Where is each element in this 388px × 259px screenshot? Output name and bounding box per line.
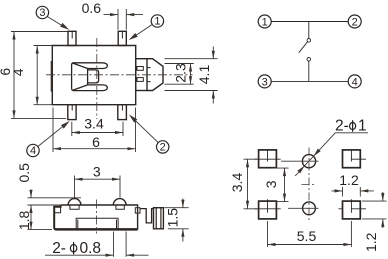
side view dome left <box>68 199 81 205</box>
centerline vertical (front view) <box>96 38 98 119</box>
dimension 4.1 (lever overall) <box>165 47 218 104</box>
lever plug ticks <box>147 68 151 82</box>
svg-text:1: 1 <box>262 17 268 29</box>
side view lever foot <box>154 208 164 229</box>
svg-text:3: 3 <box>263 180 279 188</box>
PCB hole top <box>302 155 315 168</box>
switch contact top <box>307 39 311 43</box>
svg-text:1: 1 <box>154 16 160 28</box>
svg-text:1.5: 1.5 <box>165 208 181 228</box>
lever base (front view) <box>136 59 147 91</box>
svg-text:2.3: 2.3 <box>173 63 189 83</box>
PCB pad bottom-left <box>254 199 280 219</box>
dimension 2-phi0.8 (side view) <box>45 232 149 257</box>
dimension 0.5 (side view) <box>28 190 82 206</box>
dimension 6 (front view bottom) <box>53 108 136 153</box>
dimension 2.3 (lever) <box>165 64 194 85</box>
svg-text:3: 3 <box>39 7 45 19</box>
PCB center cross <box>302 184 317 186</box>
side view dome right <box>113 199 126 205</box>
circuit diagram: terminal 3 <box>258 75 271 88</box>
svg-text:0.5: 0.5 <box>16 163 32 183</box>
leader to pad 4 <box>38 125 65 147</box>
svg-text:3.4: 3.4 <box>229 173 245 193</box>
side view lever arm <box>140 209 154 223</box>
dimension 5.5 (PCB) <box>268 221 352 247</box>
side view centerline <box>95 200 97 234</box>
dimension 1.8 (side view) <box>28 205 53 230</box>
side view lever tab <box>135 208 140 213</box>
svg-text:4: 4 <box>30 145 36 157</box>
PCB centerline hole top <box>281 160 319 162</box>
dimension 3.4 (front view bottom) <box>72 122 123 136</box>
side view recess <box>76 218 118 229</box>
svg-text:4: 4 <box>352 76 358 88</box>
terminal pad 2 (bottom-right) <box>118 105 127 120</box>
svg-text:3: 3 <box>93 163 101 179</box>
dimension 1.2 horizontal (PCB) <box>332 187 374 197</box>
svg-text:2-: 2- <box>335 118 349 135</box>
svg-text:1.2: 1.2 <box>363 232 379 252</box>
callout circle 2 <box>157 141 169 153</box>
svg-text:0.8: 0.8 <box>80 240 102 257</box>
circuit diagram: terminal 1 <box>258 15 271 28</box>
callout circle 3 <box>36 6 48 18</box>
svg-text:0.6: 0.6 <box>82 0 102 16</box>
svg-text:3: 3 <box>262 76 268 88</box>
dimension 3.4 (PCB) <box>244 159 259 209</box>
PCB centerline hole bottom <box>288 207 319 209</box>
svg-text:2: 2 <box>160 142 166 154</box>
PCB pad bottom-right <box>339 199 367 219</box>
svg-text:1: 1 <box>358 118 367 135</box>
dimension 3 (side view) <box>75 176 121 198</box>
leader to pad 1 <box>134 25 152 37</box>
callout circle 1 <box>151 15 163 27</box>
dimension 1.2 vertical (PCB) <box>362 192 387 228</box>
side view left step box <box>54 207 60 213</box>
dimension 6 (left) <box>11 32 68 119</box>
svg-text:2-: 2- <box>52 240 66 257</box>
slider knob (front view) <box>72 63 108 91</box>
dimension 4 (left inner) <box>34 46 53 105</box>
switch blade <box>299 42 308 53</box>
PCB centerline vertical <box>308 148 310 223</box>
lever plug (front view) <box>147 59 163 91</box>
wire to switch contact top <box>308 22 310 39</box>
PCB pad top-left <box>254 150 280 168</box>
pad seam lines <box>72 31 122 110</box>
svg-text:3.4: 3.4 <box>84 116 104 132</box>
PCB pad top-right <box>343 150 367 168</box>
switch contact bottom <box>307 58 311 62</box>
svg-text:4.1: 4.1 <box>196 65 212 85</box>
side view pin under dome right <box>116 205 124 209</box>
wire top <box>271 21 348 23</box>
terminal pad 3 (top-left) <box>68 31 76 45</box>
svg-text:4: 4 <box>10 68 26 76</box>
leader to pad 3 <box>47 17 64 28</box>
svg-text:1.8: 1.8 <box>16 210 32 230</box>
circuit diagram: terminal 2 <box>348 15 361 28</box>
terminal pad 1 (top-right) <box>118 31 126 45</box>
side view body <box>54 205 137 230</box>
dimension 3 (PCB) <box>272 168 289 202</box>
leader to pad 2 <box>133 119 158 143</box>
front view body outline <box>51 46 136 105</box>
callout circle 4 <box>27 144 39 156</box>
wire to switch contact bottom <box>308 61 310 81</box>
svg-text:5.5: 5.5 <box>297 228 317 244</box>
svg-text:6: 6 <box>92 134 100 150</box>
svg-text:1.2: 1.2 <box>339 172 359 188</box>
side view pin under dome left <box>70 205 79 209</box>
svg-text:2: 2 <box>352 17 358 29</box>
dimension 0.6 <box>104 9 144 30</box>
PCB hole bottom <box>303 202 316 215</box>
centerline horizontal (front view) <box>46 74 193 76</box>
circuit diagram: terminal 4 <box>348 75 361 88</box>
terminal pad 4 (bottom-left) <box>68 105 76 120</box>
lever teeth <box>137 67 143 71</box>
dimension 1.5 (side view) <box>165 199 189 242</box>
side view bottom thick edge <box>56 228 138 230</box>
wire bottom <box>271 80 348 82</box>
